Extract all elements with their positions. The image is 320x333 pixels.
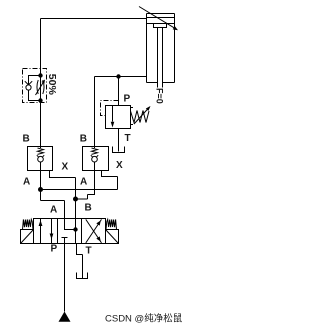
- svg-text:50%: 50%: [46, 74, 58, 96]
- svg-text:B: B: [80, 134, 87, 145]
- svg-text:P: P: [124, 94, 131, 105]
- svg-text:CSDN @纯净松鼠: CSDN @纯净松鼠: [105, 313, 183, 325]
- svg-text:B: B: [85, 203, 92, 214]
- svg-text:A: A: [80, 177, 87, 188]
- svg-text:A: A: [50, 205, 57, 216]
- svg-text:T: T: [125, 133, 131, 144]
- svg-text:P: P: [51, 244, 58, 255]
- svg-text:X: X: [62, 162, 69, 173]
- svg-text:A: A: [23, 177, 30, 188]
- svg-text:X: X: [116, 160, 123, 171]
- svg-text:F=0: F=0: [155, 88, 165, 104]
- svg-text:T: T: [86, 246, 92, 257]
- svg-text:B: B: [23, 134, 30, 145]
